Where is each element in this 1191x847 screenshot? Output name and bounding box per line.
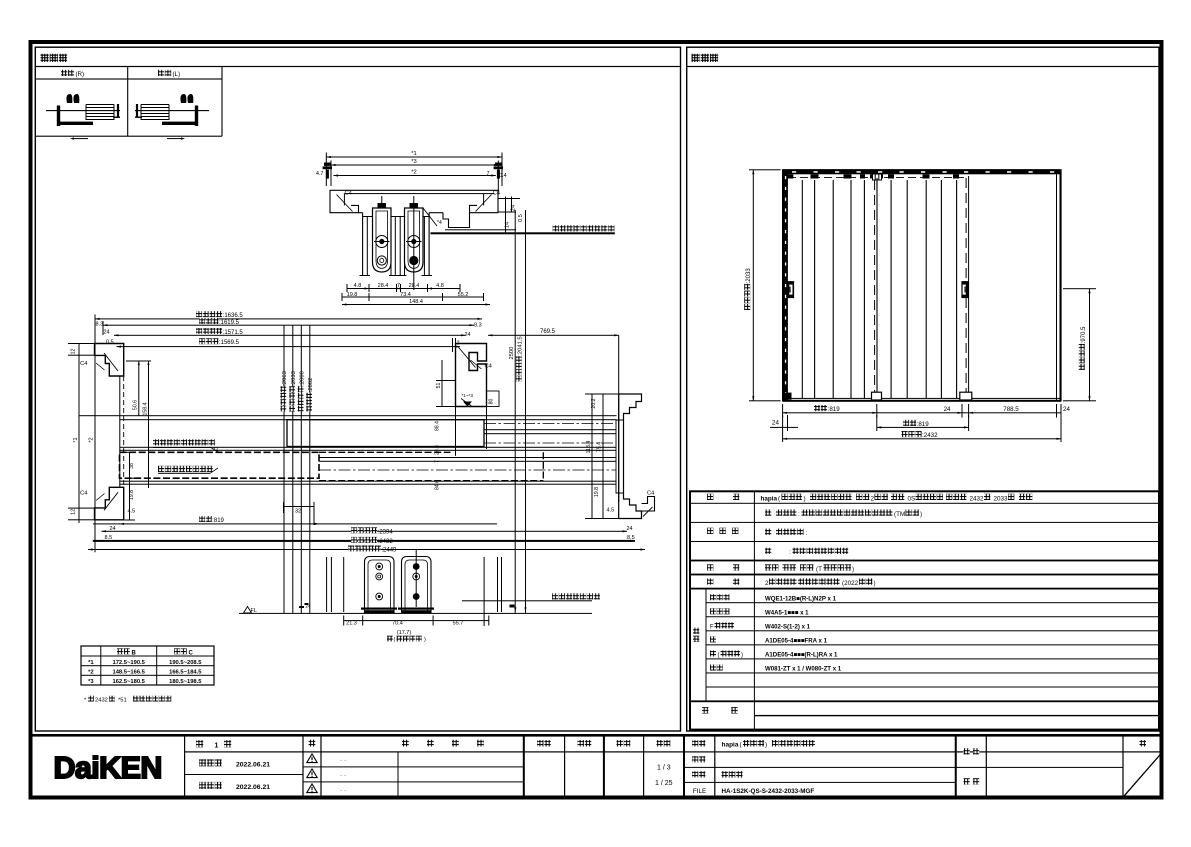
floor verticals right with arrows [484,557,527,626]
svg-text:4.8: 4.8 [436,283,444,289]
title col: kenmei / tategu labels [964,748,980,784]
svg-text:· ·: · · [340,772,346,779]
svg-text:· ·: · · [340,757,346,764]
svg-text:1 / 3: 1 / 3 [657,765,671,772]
mini left-slide section symbol [135,94,209,140]
svg-text:38: 38 [129,463,135,469]
svg-text::: : [806,530,808,537]
bottom dim line 2394 [102,526,633,535]
rail bottom dim row 148.4 [342,299,490,306]
svg-text::1619.5: :1619.5 [219,320,240,326]
svg-text:): ) [765,742,767,749]
svg-text::2449: :2449 [381,548,397,554]
center door-stop jamb profile (plan) [456,344,493,407]
spec table outer & group borders [690,491,1159,729]
svg-text:20.2: 20.2 [591,398,597,408]
svg-text:0.5: 0.5 [518,214,524,222]
svg-text:788.5: 788.5 [1003,406,1019,413]
svg-text:148.5~166.5: 148.5~166.5 [112,669,145,675]
svg-text:0.4: 0.4 [499,173,507,179]
spec rows: finish (shiage) [707,510,922,557]
svg-text:hapia: hapia [761,495,778,502]
elevation handle on door2 (black with slot) [961,281,968,298]
title col: revision history header + rows [340,740,484,798]
svg-text:148.4: 148.4 [409,299,423,305]
door mid lines [120,447,617,451]
bottom dim line 2449 [88,546,645,554]
svg-text:2022.06.21: 2022.06.21 [236,784,270,791]
svg-text:70.4: 70.4 [392,621,403,627]
svg-text:C4: C4 [80,361,88,367]
svg-text:(T: (T [816,566,822,573]
svg-text:32: 32 [295,509,301,515]
svg-text:*2: *2 [88,669,93,675]
svg-text:*3: *3 [411,159,416,165]
rail detail top dim line #2 [316,170,507,179]
svg-text:19.8: 19.8 [129,490,135,500]
floor guide post right [398,550,434,613]
right wall jamb profile (plan) [616,335,642,518]
rail bottom dim row 19.8/73.4/55.2 [342,292,485,301]
spec row: handle (hatte) [707,564,854,573]
svg-text:24: 24 [944,406,951,413]
elevation pivot squares bottom [784,392,972,400]
svg-text::2432: :2432 [922,432,938,439]
svg-text:): ) [741,653,743,659]
svg-text:24: 24 [465,332,471,338]
title cols: approve/check/make headers [537,740,630,747]
door leaf horizontal lines upper [79,415,617,420]
svg-text:172.5~190.5: 172.5~190.5 [112,660,145,666]
svg-text:7: 7 [397,283,400,289]
left inner dim 38 / 19.8 [125,452,136,521]
svg-text::: : [798,511,800,518]
svg-text:*3: *3 [88,679,94,685]
hikite door stop cap label [158,466,218,474]
svg-text:28.4: 28.4 [409,283,420,289]
hidden door dash-dot lines [319,424,617,471]
svg-text:*2: *2 [411,170,416,176]
hanger roller unit right [405,196,438,290]
svg-text:): ) [424,637,426,643]
flat rail label [462,593,600,601]
bottom dim line 2432 (thick) [93,535,635,545]
svg-text:(L): (L) [173,71,181,78]
svg-text:73.4: 73.4 [400,292,411,298]
svg-text:2: 2 [871,495,875,502]
svg-text:113.4: 113.4 [586,441,592,454]
left bottom jamb profile with C4 chamfer [68,487,124,520]
svg-text:A1DE05-4■■■FRA x 1: A1DE05-4■■■FRA x 1 [765,638,828,645]
svg-text:W4A5-1■■■ x 1: W4A5-1■■■ x 1 [765,610,809,617]
svg-text:2432: 2432 [970,495,985,502]
svg-text:*2: *2 [89,437,95,442]
svg-text:50.6: 50.6 [133,400,139,410]
rotated dims 88.4 / 28.4 / 7 / 84.6 at leaf center [435,421,441,490]
svg-text::2002: :2002 [308,378,314,393]
svg-text::1571.5: :1571.5 [223,330,244,336]
svg-text:(TM: (TM [894,511,905,518]
svg-text:1: 1 [215,742,219,749]
svg-text:FL: FL [251,608,257,614]
spec row: hardware (kanamono) [707,578,876,587]
title col: dai-1-han header + dates [196,740,270,791]
svg-text:8.3: 8.3 [474,323,482,329]
rail detail top dim line #1 [326,151,503,186]
svg-text:C4: C4 [493,191,501,197]
svg-text:24: 24 [627,526,633,532]
left panel title 'danmenzu' + underline [35,54,680,67]
svg-text:162.5~180.5: 162.5~180.5 [112,679,145,685]
rail right mounting bracket with C4 chamfer [470,190,501,212]
floor line left ticks [299,603,311,609]
svg-text:WQE1-12B■(R-L)N2P x 1: WQE1-12B■(R-L)N2P x 1 [765,596,837,603]
svg-text:51: 51 [436,383,442,389]
rail bottom dim row 4.8/28.4/7/28.4/4.8 [347,283,461,292]
bottom dim line 819 (door width) [93,502,497,525]
spec group: remarks (bikou) [702,707,738,714]
spec group: part numbers (hinban) [693,594,842,672]
svg-text:): ) [804,495,806,502]
svg-text:180.5~198.5: 180.5~198.5 [169,679,202,685]
floor line with FL mark [239,607,592,615]
mini table: right-slide / left-slide cells [35,67,222,137]
note under size table [84,696,171,704]
svg-text:A1DE05-4■■■(R-L)RA x 1: A1DE05-4■■■(R-L)RA x 1 [765,652,838,659]
elevation door2 edge dashed [965,178,967,400]
elevation door1 rear edge dashed [874,180,876,398]
center jamb small dims 2 / 51 / 80 [436,338,499,456]
svg-text:W402-S(1-2) x 1: W402-S(1-2) x 1 [765,624,811,631]
svg-text:(2022: (2022 [842,580,859,587]
elevation handle on door1 (black with slot) [787,281,794,298]
svg-text:*1: *1 [88,660,94,666]
elevation top hanger dashed line and tabs [785,174,968,180]
svg-text:8.3: 8.3 [96,322,104,328]
svg-text:W081-ZT x 1 / W080-ZT x 1: W081-ZT x 1 / W080-ZT x 1 [765,666,842,673]
right panel title 'shoumenzu' + underline [687,54,1159,67]
svg-text:): ) [874,580,876,587]
svg-text:): ) [920,511,922,518]
svg-text:· ·: · · [340,787,346,794]
svg-text:2500: 2500 [509,347,515,360]
plan dim extension verticals (left) [73,315,104,553]
elevation door1 groove lines [802,178,878,398]
svg-text:4.7: 4.7 [316,171,324,177]
svg-text::819: :819 [212,518,224,524]
svg-text:166.5~184.5: 166.5~184.5 [169,669,202,675]
svg-text:28.4: 28.4 [378,283,389,289]
self-closing device note label [153,439,220,453]
right panel box (shou-men-zu front view) [687,47,1159,731]
label tsurisha rail : separate package [553,225,615,231]
spec row: model (youshiki) [707,494,1032,503]
svg-text:12: 12 [71,349,77,355]
svg-text:HA-1S2K-QS-S-2432-2033-MGF: HA-1S2K-QS-S-2432-2033-MGF [722,788,815,795]
mini table header 'hidaribiki (L)' [158,70,180,78]
elevation bottom dim row2: 24 / 819 [770,415,969,431]
svg-text:hapia: hapia [722,742,739,749]
rail/ceiling top line [330,190,500,194]
svg-text:C4: C4 [345,191,353,197]
title col: page cell with diagonal [1124,740,1162,797]
elevation left height dim 2033 [744,169,780,401]
svg-text:DaiKEN: DaiKEN [54,751,162,785]
mini table header 'migibiki (R)' [61,70,84,78]
svg-text:75.4: 75.4 [597,442,603,452]
title col: han (rev) header + warning triangles [307,740,317,793]
svg-text:24: 24 [772,420,779,427]
right jamb rotated dims 20.2 / 113.4 / 75.4 / 19.8 [585,394,619,520]
svg-text:24: 24 [110,526,116,532]
svg-text::1569.5: :1569.5 [219,340,240,346]
size range table [81,646,214,685]
title col: name rows labels [692,740,706,795]
svg-text:0S: 0S [908,495,916,502]
svg-text:B: B [132,650,137,656]
svg-text:21.3: 21.3 [346,621,357,627]
elevation outer frame [783,170,1061,401]
vertical dim lines 2500 / 2041.5 [509,210,526,613]
rail left mounting bracket with C4 chamfer [330,190,359,212]
svg-text:0.5: 0.5 [106,340,114,346]
svg-text:4.8: 4.8 [354,283,362,289]
plan top dim line 1636.5 [95,311,482,327]
upper door leaf rectangle (rear door) [287,420,617,447]
elevation right frame edge [783,170,1061,402]
svg-text:*1: *1 [411,151,416,157]
svg-text:158.4: 158.4 [142,402,148,415]
svg-text:C4: C4 [647,491,655,497]
rail hanger bolt hardware left [323,163,332,179]
svg-text:*1~*3: *1~*3 [462,393,474,398]
floor dim row 21.3 / 70.4 / 55.7 [343,616,489,644]
svg-text:FILE: FILE [693,788,706,795]
floor guide post left (flat rail) [361,557,397,614]
front door extension lines right [120,457,617,485]
mini right-slide section symbol [46,94,120,140]
svg-text::819: :819 [917,421,930,428]
svg-text:24: 24 [1063,406,1070,413]
svg-text:): ) [852,566,854,573]
svg-text:C4: C4 [485,364,493,370]
svg-text::970.5: :970.5 [1081,326,1087,343]
DAIKEN logo [54,751,162,785]
rail detail top dim line #3 [331,159,499,190]
svg-text:24: 24 [104,330,110,336]
vertical height dim lines with rotated labels 2063/2033/2000/2002 [280,325,314,613]
svg-text:4.5: 4.5 [607,508,615,514]
elevation left frame black band with white dashes [783,170,788,401]
svg-text::2000: :2000 [300,371,306,386]
svg-text:80: 80 [489,399,495,405]
svg-text::1636.5: :1636.5 [223,313,244,319]
svg-text:(: ( [394,637,396,643]
svg-text::2432: :2432 [378,539,394,545]
left panel box (dan-men-zu section view) [35,47,680,731]
svg-text:8.5: 8.5 [627,535,635,541]
svg-text:F: F [710,625,714,631]
svg-text:14: 14 [505,222,511,228]
svg-text:2022.06.21: 2022.06.21 [236,761,270,768]
svg-text::2063: :2063 [282,371,288,386]
svg-text:2432: 2432 [95,698,108,704]
svg-text::: : [789,549,791,556]
svg-text::2394: :2394 [378,529,394,535]
svg-text:4.5: 4.5 [128,509,136,515]
svg-text:24: 24 [306,604,311,609]
title block frame [29,734,1164,797]
svg-text:28.4: 28.4 [435,445,441,455]
elevation door2 groove lines [891,176,970,401]
hanging rail hat-channel profile [359,212,517,276]
svg-text:19.8: 19.8 [594,487,600,497]
svg-text::819: :819 [828,406,841,413]
svg-text::2033: :2033 [291,371,297,386]
svg-text:C: C [189,650,194,656]
right bottom corner profile with C4 [642,491,656,519]
rail right small dims 24 / 14 / 0.5 [498,197,524,234]
svg-text:*51: *51 [118,698,127,704]
svg-text:55.7: 55.7 [453,621,464,627]
svg-text:88.4: 88.4 [435,421,441,431]
rail hanger bolt hardware right [494,163,503,179]
elevation right handle-height dim 970.5 [1063,288,1096,401]
svg-text:8.5: 8.5 [105,535,113,541]
svg-text:*1: *1 [73,437,79,442]
plan top dim line 1619.5 [103,318,474,336]
front door leaf dashed pocket rectangle [120,452,544,480]
title block row lines [185,751,1163,783]
svg-text:2033: 2033 [994,495,1009,502]
svg-text:7: 7 [486,171,489,177]
svg-text:12: 12 [71,509,77,515]
svg-text:(17.7): (17.7) [397,630,412,636]
title col: name values [722,740,815,795]
svg-text:55.2: 55.2 [458,292,469,298]
plan top right dim 769.5 [457,323,619,347]
plan top dim line 1569.5 [117,338,461,348]
svg-text:*4: *4 [437,220,442,226]
left top jamb profile with C4 chamfer [68,343,124,488]
svg-text::2033: :2033 [746,268,752,284]
svg-text:(: ( [718,653,720,659]
plan top dim line 1571.5 [106,328,466,346]
svg-text:1 / 25: 1 / 25 [655,780,673,787]
hanging-rail long line to label [431,232,615,234]
svg-text:19.8: 19.8 [347,292,358,298]
hanger roller unit left [373,196,392,272]
svg-text:2: 2 [765,580,769,587]
title col: scale [655,740,673,787]
svg-text:769.5: 769.5 [540,329,556,335]
elevation top rail thick band with white dashes [783,169,1060,174]
svg-text:(R): (R) [76,71,85,78]
svg-text:C4: C4 [80,491,88,497]
elevation bottom dim row3: 2432 [782,415,1061,442]
door bottom edge verticals [326,557,344,612]
left inner dim 50.6 / 158.4 verticals [126,361,151,489]
svg-text::2041.5: :2041.5 [518,336,524,355]
elevation bottom dim row1: 819 / 24 / 788.5 / 24 [782,404,1070,418]
svg-text:190.5~208.5: 190.5~208.5 [169,660,202,666]
